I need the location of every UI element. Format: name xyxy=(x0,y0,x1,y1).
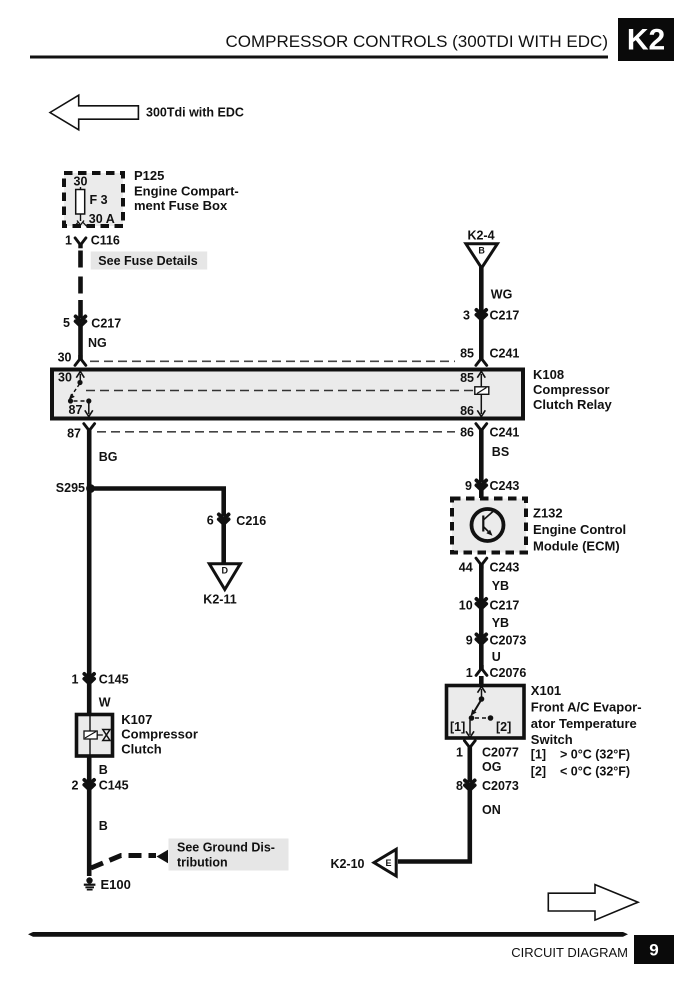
svg-text:C243: C243 xyxy=(490,561,520,575)
wire C217 to relay pin 30 xyxy=(78,326,83,360)
wire label BS xyxy=(492,445,509,459)
svg-text:C145: C145 xyxy=(99,779,129,793)
connector C2073 pin 8 xyxy=(456,779,519,793)
svg-text:ator Temperature: ator Temperature xyxy=(531,716,637,731)
relay switch contact xyxy=(68,380,93,417)
svg-text:86: 86 xyxy=(460,404,474,418)
svg-text:C217: C217 xyxy=(490,599,520,613)
svg-text:5: 5 xyxy=(63,316,70,330)
splice S295 xyxy=(56,481,95,495)
svg-text:10: 10 xyxy=(459,599,473,613)
svg-text:1: 1 xyxy=(466,666,473,680)
label P125 Engine Compartment Fuse Box xyxy=(134,168,239,213)
direction arrow 300Tdi with EDC xyxy=(50,95,244,130)
ECM Z132 box xyxy=(452,499,526,553)
svg-text:X101: X101 xyxy=(531,683,561,698)
wire label YB lower xyxy=(492,616,509,630)
wire 87 to S295 xyxy=(87,429,92,489)
svg-text:44: 44 xyxy=(459,561,473,575)
connector C145 pin 1 xyxy=(71,673,128,687)
wire label B upper xyxy=(99,763,108,777)
svg-text:30: 30 xyxy=(74,175,88,189)
svg-text:OG: OG xyxy=(482,760,501,774)
svg-text:BS: BS xyxy=(492,445,509,459)
svg-text:W: W xyxy=(99,696,111,710)
note See Fuse Details xyxy=(91,252,208,270)
svg-text:P125: P125 xyxy=(134,168,164,183)
label K107 Compressor Clutch xyxy=(121,712,198,757)
svg-text:1: 1 xyxy=(456,746,463,760)
svg-text:K107: K107 xyxy=(121,712,152,727)
svg-text:B: B xyxy=(99,819,108,833)
svg-text:D: D xyxy=(222,566,229,576)
svg-text:See Ground Dis-: See Ground Dis- xyxy=(177,840,275,854)
svg-text:S295: S295 xyxy=(56,481,85,495)
relay coil xyxy=(475,387,489,395)
svg-text:COMPRESSOR CONTROLS (300TDI WI: COMPRESSOR CONTROLS (300TDI WITH EDC) xyxy=(225,32,608,51)
connector C216 pin 6 xyxy=(207,514,266,529)
svg-text:[2]: [2] xyxy=(531,765,546,779)
svg-text:3: 3 xyxy=(463,309,470,323)
wire label WG xyxy=(491,288,513,302)
connector C217 pin 3 xyxy=(463,309,519,323)
svg-text:[2]: [2] xyxy=(496,720,511,734)
wire C2076 into X101 xyxy=(479,676,484,685)
svg-text:Z132: Z132 xyxy=(533,506,563,521)
connector C116 pin 1 xyxy=(65,234,120,249)
svg-text:6: 6 xyxy=(207,514,214,528)
footer label CIRCUIT DIAGRAM xyxy=(511,945,628,960)
label K108 Compressor Clutch Relay xyxy=(533,367,613,412)
wire C116 to C217 (dashed section) xyxy=(78,251,83,303)
wire C2073 to C2076 xyxy=(479,643,484,670)
svg-text:K2: K2 xyxy=(627,24,665,57)
svg-text:> 0°C (32°F): > 0°C (32°F) xyxy=(560,748,630,762)
wire S295 to C145 xyxy=(87,489,92,677)
connector C2076 pin 1 xyxy=(466,665,527,680)
svg-text:C217: C217 xyxy=(490,309,520,323)
page number 9 xyxy=(634,935,674,964)
fuse box P125 xyxy=(64,173,123,226)
relay coil control dashed line xyxy=(86,390,475,392)
wire C243 to ECM xyxy=(479,490,484,498)
note switch position 1 xyxy=(531,748,630,762)
svg-text:87: 87 xyxy=(67,427,81,441)
footer rule xyxy=(28,932,628,937)
svg-text:< 0°C (32°F): < 0°C (32°F) xyxy=(560,765,630,779)
relay pin 30 xyxy=(58,371,84,385)
K107 clutch internals xyxy=(84,714,110,756)
svg-text:tribution: tribution xyxy=(177,855,228,869)
svg-text:9: 9 xyxy=(466,634,473,648)
header title xyxy=(225,32,608,51)
compressor clutch K107 box xyxy=(77,715,113,757)
svg-text:YB: YB xyxy=(492,616,509,630)
harness dashed line below relay xyxy=(97,431,455,433)
wire C216 to K2-11 xyxy=(221,524,226,564)
wire C2073 to K2-10 xyxy=(398,789,470,862)
svg-text:1: 1 xyxy=(71,673,78,687)
svg-text:87: 87 xyxy=(69,403,83,417)
svg-text:C2073: C2073 xyxy=(490,634,527,648)
ECM transistor symbol xyxy=(472,509,504,541)
switch X101 box xyxy=(447,686,525,739)
ground distribution pointer xyxy=(91,850,168,868)
wire C241 to C243 xyxy=(479,429,484,483)
node 87 below relay xyxy=(67,424,95,441)
svg-text:300Tdi with EDC: 300Tdi with EDC xyxy=(146,106,244,120)
svg-text:CIRCUIT DIAGRAM: CIRCUIT DIAGRAM xyxy=(511,945,628,960)
X101 contact [1] xyxy=(450,715,474,737)
wire C2077 to C2073 xyxy=(467,746,472,783)
svg-text:See Fuse Details: See Fuse Details xyxy=(98,254,197,268)
svg-text:K2-10: K2-10 xyxy=(330,857,364,871)
harness dashed line above relay xyxy=(90,360,455,362)
svg-text:Clutch: Clutch xyxy=(121,742,162,757)
svg-text:2: 2 xyxy=(71,779,78,793)
svg-text:ON: ON xyxy=(482,803,501,817)
wire C145 to K107 xyxy=(87,683,92,714)
svg-text:Module (ECM): Module (ECM) xyxy=(533,539,620,554)
label Z132 Engine Control Module (ECM) xyxy=(533,506,626,554)
svg-text:30 A: 30 A xyxy=(89,212,115,226)
fuse F3 30A xyxy=(74,175,115,227)
X101 top pin xyxy=(478,687,486,702)
wire into C217 pin 5 xyxy=(78,300,83,318)
wire K107 to C145 pin 2 xyxy=(87,756,92,782)
ground E100 xyxy=(84,877,131,892)
svg-text:Clutch Relay: Clutch Relay xyxy=(533,397,613,412)
svg-text:1: 1 xyxy=(65,234,72,248)
connector C2077 pin 1 xyxy=(456,741,519,760)
wire label OG xyxy=(482,760,501,774)
node 30 above relay xyxy=(58,351,86,366)
connector C2073 pin 9 xyxy=(466,634,527,648)
svg-text:NG: NG xyxy=(88,336,107,350)
wire K2-4 to C217 xyxy=(479,267,484,312)
svg-text:C2076: C2076 xyxy=(490,666,527,680)
svg-text:[1]: [1] xyxy=(531,748,546,762)
svg-text:Engine Compart-: Engine Compart- xyxy=(134,183,239,198)
svg-text:U: U xyxy=(492,650,501,664)
wire C217 to C241 xyxy=(479,319,484,360)
connector C243 pin 9 xyxy=(465,479,519,493)
relay pin 86 xyxy=(460,394,485,418)
svg-text:E100: E100 xyxy=(101,877,131,892)
wire C217 to C2073 xyxy=(479,608,484,637)
svg-text:F 3: F 3 xyxy=(90,193,108,207)
wire label B lower xyxy=(99,819,108,833)
svg-text:C216: C216 xyxy=(236,514,266,528)
svg-text:C243: C243 xyxy=(490,479,520,493)
off-page connector K2-11 xyxy=(203,564,240,607)
X101 switch lever xyxy=(471,701,481,716)
svg-text:C2073: C2073 xyxy=(482,779,519,793)
svg-text:Compressor: Compressor xyxy=(121,727,198,742)
svg-text:C241: C241 xyxy=(490,347,520,361)
label X101 Front A/C Evaporator Temperature Switch xyxy=(531,683,642,747)
svg-text:C2077: C2077 xyxy=(482,746,519,760)
svg-text:K2-4: K2-4 xyxy=(467,229,494,243)
svg-text:BG: BG xyxy=(99,450,118,464)
wire S295 branch to C216 xyxy=(91,489,224,517)
svg-text:ment Fuse Box: ment Fuse Box xyxy=(134,198,228,213)
svg-text:B: B xyxy=(478,246,485,256)
svg-text:YB: YB xyxy=(492,579,509,593)
off-page connector K2-4 xyxy=(466,229,498,269)
svg-text:E: E xyxy=(385,858,391,868)
note See Ground Distribution xyxy=(169,839,289,871)
connector C217 pin 5 xyxy=(63,316,121,331)
svg-text:C145: C145 xyxy=(99,673,129,687)
svg-text:K108: K108 xyxy=(533,367,564,382)
svg-text:C116: C116 xyxy=(91,234,120,248)
svg-text:K2-11: K2-11 xyxy=(203,593,236,607)
X101 contact [2] xyxy=(475,715,511,734)
connector C145 pin 2 xyxy=(71,779,128,793)
svg-text:86: 86 xyxy=(460,426,474,440)
svg-text:85: 85 xyxy=(460,371,474,385)
off-page connector K2-10 xyxy=(330,849,396,876)
footer direction arrow xyxy=(548,885,638,921)
header rule xyxy=(30,56,608,59)
svg-text:B: B xyxy=(99,763,108,777)
svg-text:85: 85 xyxy=(460,347,474,361)
relay pin 87 label xyxy=(69,403,83,417)
page tab K2 xyxy=(618,18,674,61)
wire C145 to ground xyxy=(87,789,92,876)
wire label NG xyxy=(88,336,107,350)
connector C241 pin 85 xyxy=(460,347,519,366)
svg-text:Compressor: Compressor xyxy=(533,382,610,397)
svg-text:30: 30 xyxy=(58,351,72,365)
wire label BG xyxy=(99,450,118,464)
svg-text:8: 8 xyxy=(456,779,463,793)
svg-text:9: 9 xyxy=(649,941,658,960)
svg-text:C217: C217 xyxy=(91,317,121,331)
wire label W xyxy=(99,696,111,710)
note switch position 2 xyxy=(531,765,630,779)
wire label ON xyxy=(482,803,501,817)
svg-text:Engine Control: Engine Control xyxy=(533,522,626,537)
connector C217 pin 10 xyxy=(459,599,520,613)
svg-text:Front A/C Evapor-: Front A/C Evapor- xyxy=(531,700,642,715)
connector C243 pin 44 xyxy=(459,558,520,574)
svg-text:C241: C241 xyxy=(490,426,520,440)
svg-text:[1]: [1] xyxy=(450,720,465,734)
connector C241 pin 86 xyxy=(460,424,519,440)
relay pin 85 xyxy=(460,371,485,387)
svg-text:WG: WG xyxy=(491,288,513,302)
svg-text:30: 30 xyxy=(58,371,72,385)
wire label U xyxy=(492,650,501,664)
wire C243 to C217 xyxy=(479,563,484,601)
wire label YB upper xyxy=(492,579,509,593)
relay K108 box xyxy=(52,370,523,419)
svg-text:Switch: Switch xyxy=(531,732,573,747)
svg-text:9: 9 xyxy=(465,479,472,493)
